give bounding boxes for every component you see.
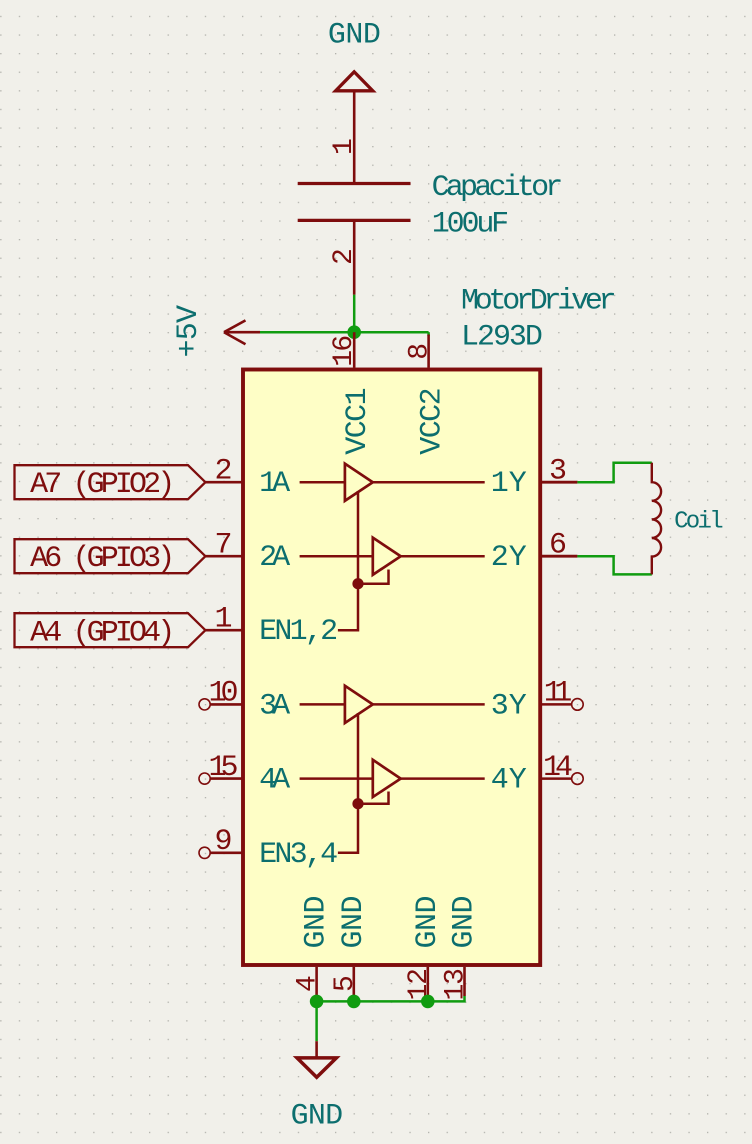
svg-text:1: 1 [214, 602, 232, 636]
U1 pin 11 wire with circle [542, 699, 583, 711]
svg-text:2: 2 [214, 454, 232, 488]
power symbol GND bottom triangle [297, 1058, 336, 1077]
svg-text:GND: GND [291, 1099, 344, 1133]
svg-text:16: 16 [329, 335, 360, 367]
svg-text:EN1,2: EN1,2 [259, 615, 338, 649]
junction ground pin 5 [347, 995, 361, 1009]
enable elbow to buffer 2 [358, 570, 389, 584]
svg-text:VCC1: VCC1 [341, 387, 375, 454]
U1 pin 6 wire [542, 555, 578, 558]
svg-text:3A: 3A [259, 689, 290, 723]
svg-text:VCC2: VCC2 [416, 387, 450, 454]
inductor L1 coil [652, 463, 661, 575]
svg-text:13: 13 [441, 968, 472, 1001]
U1 pin 4 stub [315, 967, 318, 1002]
svg-text:11: 11 [544, 677, 573, 711]
svg-text:EN3,4: EN3,4 [259, 838, 338, 872]
svg-text:2A: 2A [259, 541, 290, 575]
wire cap to junction [353, 295, 356, 333]
svg-text:3: 3 [549, 454, 567, 488]
capacitor C1 pin 1 wire [353, 91, 356, 184]
power symbol +5V arrow [224, 320, 260, 344]
svg-text:A7 (GPIO2): A7 (GPIO2) [30, 468, 175, 502]
svg-text:2Y: 2Y [491, 541, 527, 575]
U1 pin 10 wire with circle [199, 699, 242, 710]
op-amp U1 body L293D [243, 370, 540, 966]
wire 2Y to coil [577, 556, 651, 574]
enable net buffer1-2 vertical [357, 491, 360, 584]
svg-text:+5V: +5V [172, 305, 206, 358]
U1 pin 1 wire [205, 629, 242, 632]
svg-text:2: 2 [329, 248, 360, 265]
svg-text:Coil: Coil [674, 509, 724, 536]
svg-text:GND: GND [328, 19, 381, 53]
svg-text:3Y: 3Y [491, 689, 527, 723]
svg-text:GND: GND [337, 896, 371, 949]
wire 2Y output [401, 555, 485, 558]
junction ground pin 12 [421, 995, 435, 1009]
global label A4 (GPIO4) [15, 613, 206, 650]
wire 3A input [300, 703, 345, 706]
wire 4Y output [401, 777, 485, 780]
svg-text:9: 9 [214, 825, 232, 859]
svg-text:A4 (GPIO4): A4 (GPIO4) [30, 616, 175, 650]
capacitor C1 pin 2 stub [353, 220, 356, 294]
svg-text:100uF: 100uF [432, 208, 510, 242]
svg-text:1: 1 [329, 138, 360, 155]
svg-text:GND: GND [411, 896, 445, 949]
wire 1Y to coil [577, 463, 651, 482]
wire 3Y output [373, 703, 485, 706]
buffer amp 2 [373, 538, 401, 575]
junction ground pin 4 [310, 995, 324, 1009]
U1 pin 9 wire with circle [199, 847, 242, 858]
wire EN1,2 [338, 584, 358, 631]
wire 2A input [300, 555, 373, 558]
svg-text:10: 10 [209, 677, 239, 711]
junction enable 3,4 [352, 798, 363, 809]
svg-text:14: 14 [543, 751, 573, 785]
U1 pin 8 stub [427, 335, 430, 368]
wire elbow to pin 8 [427, 332, 430, 336]
U1 pin 12 stub [426, 967, 429, 1002]
global label A7 (GPIO2) [15, 465, 206, 502]
svg-text:5: 5 [330, 975, 361, 992]
buffer amp 3 [345, 686, 373, 723]
svg-text:L293D: L293D [461, 320, 543, 354]
wire 1A input [300, 481, 345, 484]
power symbol GND top [336, 72, 373, 91]
svg-text:4A: 4A [259, 764, 290, 798]
U1 pin 7 wire [205, 555, 242, 558]
svg-text:4: 4 [293, 975, 324, 992]
enable elbow to buffer 4 [358, 792, 389, 804]
U1 pin 5 stub [352, 967, 355, 1002]
wire ground bus [317, 996, 465, 1001]
svg-text:GND: GND [448, 896, 482, 949]
svg-text:8: 8 [405, 343, 436, 360]
buffer amp 4 [373, 760, 401, 797]
wire +5V bus horizontal [260, 331, 429, 334]
power symbol GND bottom stub [315, 1041, 318, 1058]
buffer amp 1 [345, 464, 373, 501]
U1 pin 16 stub [353, 332, 356, 367]
wire ground drop [315, 1001, 318, 1041]
U1 pin 13 stub [463, 967, 466, 996]
global label A6 (GPIO3) [15, 539, 206, 576]
capacitor C1 plates [298, 184, 411, 221]
svg-text:MotorDriver: MotorDriver [461, 285, 617, 319]
wire 4A input [300, 777, 373, 780]
junction VCC node [347, 325, 361, 339]
U1 pin 14 wire with circle [542, 773, 583, 785]
U1 pin 3 wire [542, 481, 578, 484]
svg-text:4Y: 4Y [491, 764, 527, 798]
svg-text:7: 7 [214, 528, 232, 562]
junction enable 1,2 [352, 578, 363, 589]
U1 pin 15 wire with circle [199, 773, 242, 784]
svg-text:Capacitor: Capacitor [432, 171, 564, 205]
svg-text:1A: 1A [259, 467, 290, 501]
svg-text:A6 (GPIO3): A6 (GPIO3) [30, 542, 175, 576]
svg-text:1Y: 1Y [491, 467, 527, 501]
wire EN3,4 [338, 804, 358, 853]
svg-text:15: 15 [209, 751, 239, 785]
enable net buffer3-4 vertical [357, 713, 360, 804]
svg-text:GND: GND [300, 896, 334, 949]
svg-text:6: 6 [549, 528, 567, 562]
wire 1Y output [373, 481, 485, 484]
U1 pin 2 wire [205, 481, 242, 484]
